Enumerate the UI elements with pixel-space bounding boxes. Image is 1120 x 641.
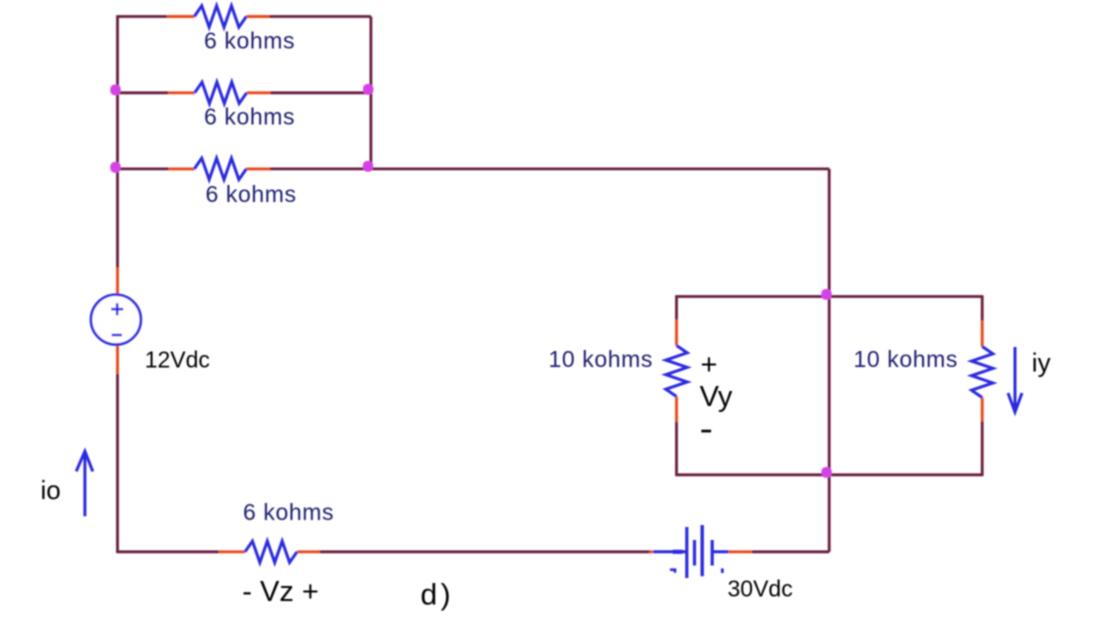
svg-text:- Vz +: - Vz + (242, 576, 319, 608)
svg-text:6 kohms: 6 kohms (243, 499, 334, 525)
svg-text:Vy: Vy (700, 381, 733, 413)
svg-text:io: io (41, 475, 61, 505)
svg-text:12Vdc: 12Vdc (145, 346, 210, 372)
svg-text:iy: iy (1032, 348, 1051, 378)
svg-text:10 kohms: 10 kohms (854, 346, 959, 372)
svg-text:+: + (701, 349, 718, 381)
svg-text:d): d) (421, 579, 455, 612)
svg-text:6 kohms: 6 kohms (204, 28, 295, 54)
svg-text:30Vdc: 30Vdc (728, 576, 793, 602)
svg-text:6 kohms: 6 kohms (206, 181, 297, 207)
svg-text:6 kohms: 6 kohms (204, 104, 295, 130)
svg-text:10 kohms: 10 kohms (549, 346, 654, 372)
